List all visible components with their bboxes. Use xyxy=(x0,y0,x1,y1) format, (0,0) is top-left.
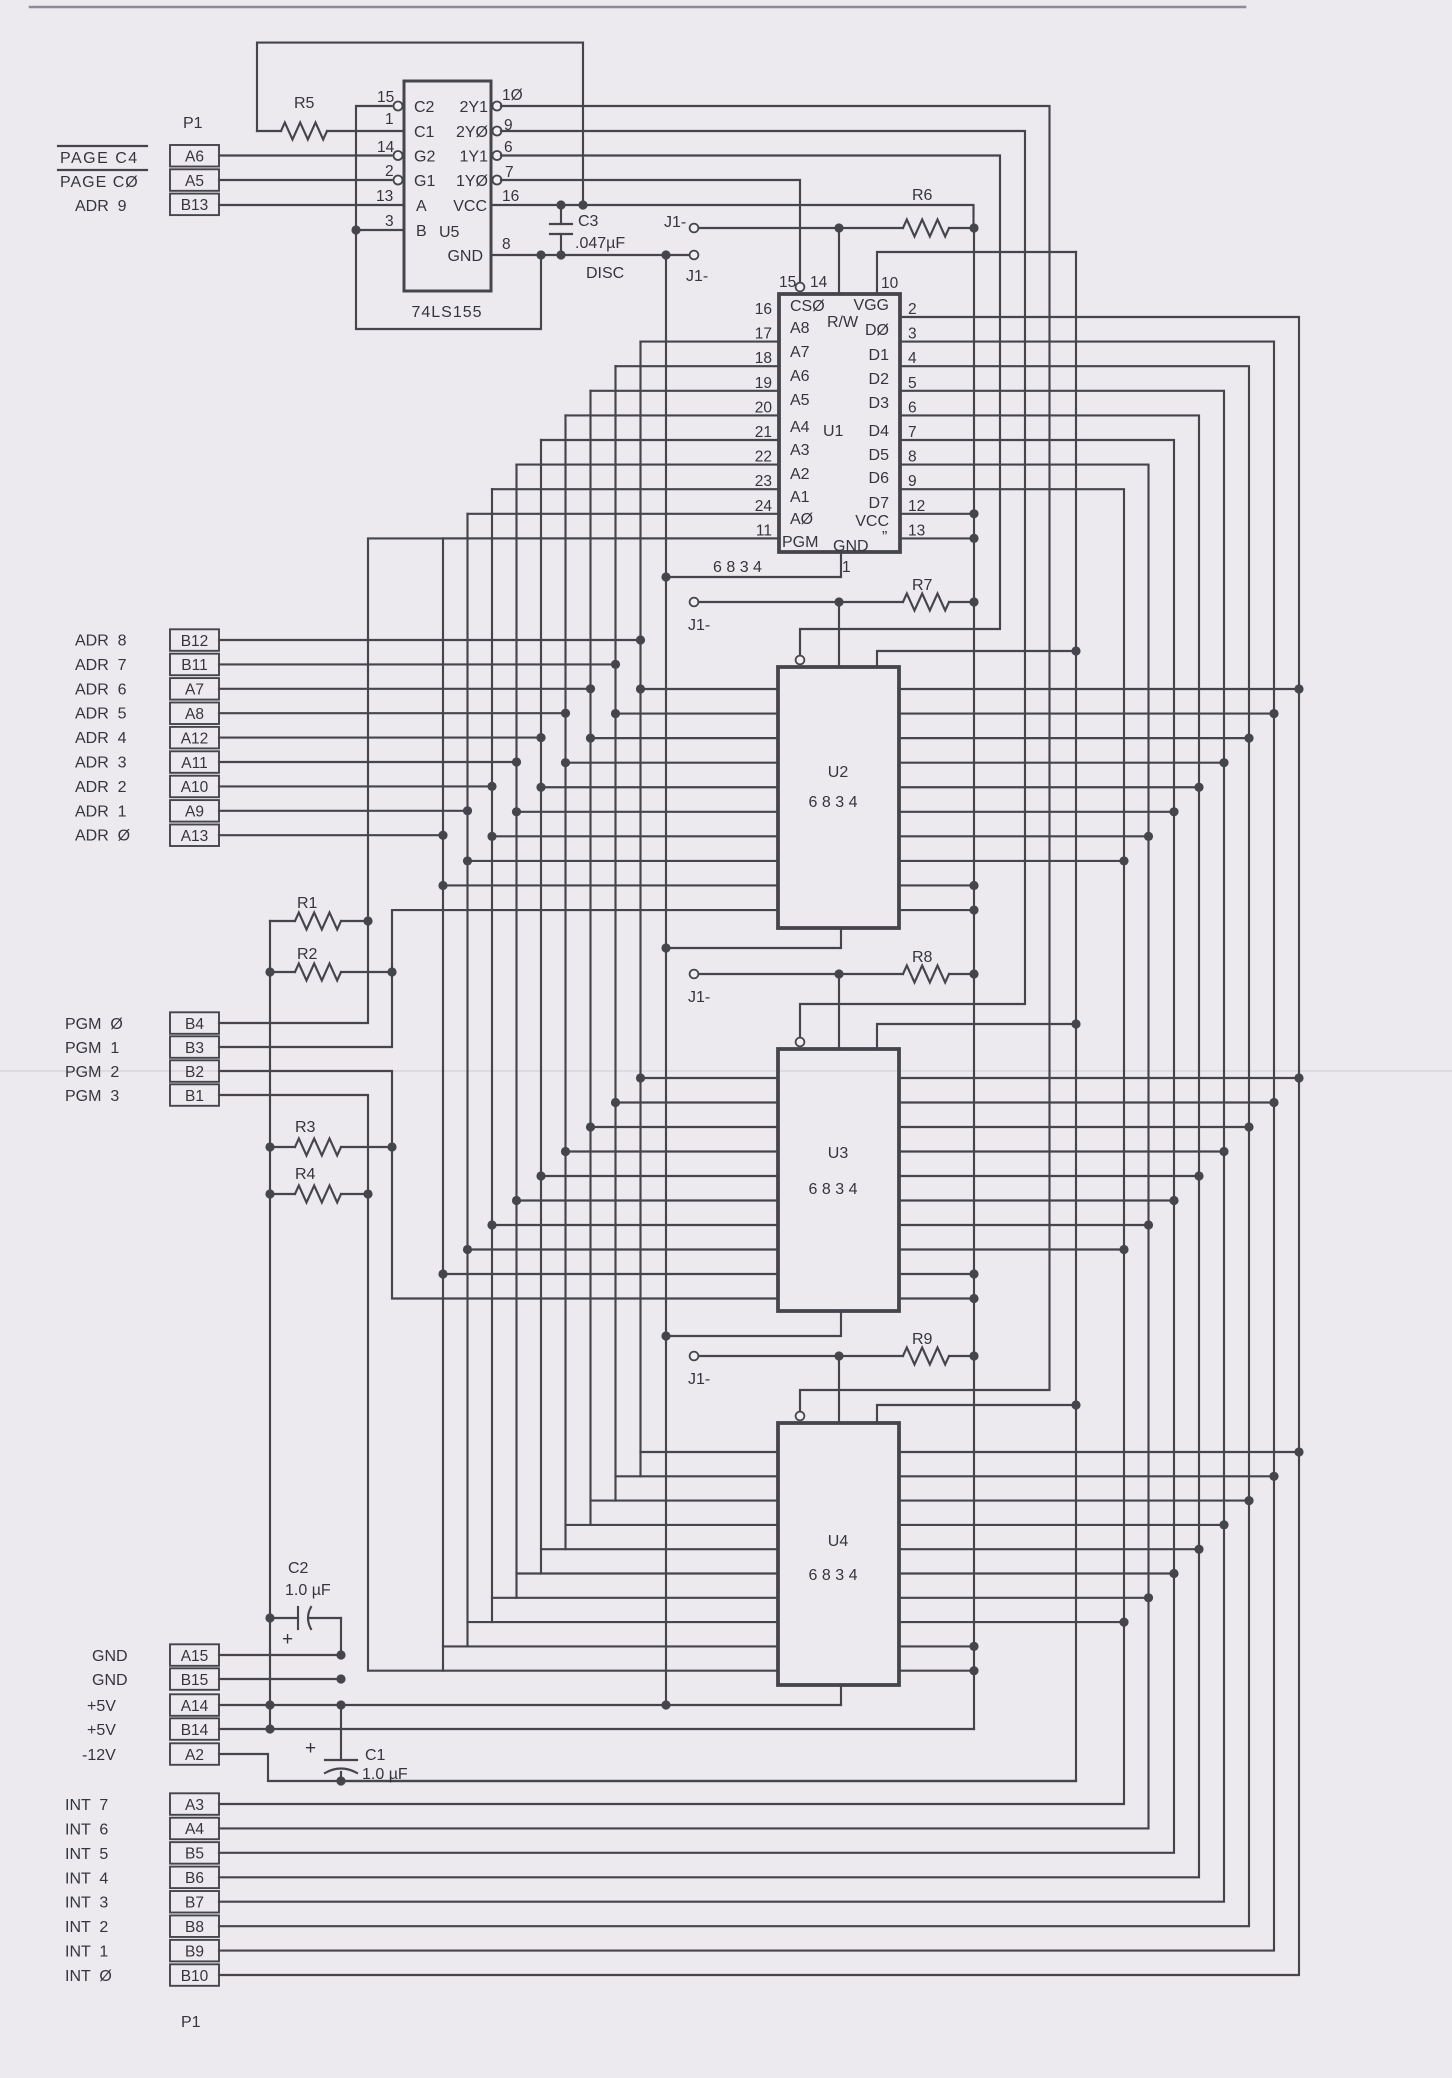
svg-text:14: 14 xyxy=(377,139,395,156)
connector pin B1 xyxy=(170,1084,219,1106)
svg-text:”: ” xyxy=(882,529,887,546)
resistor R8 with J1- terminal xyxy=(688,949,974,1006)
resistor R2 xyxy=(270,946,392,981)
U1 left pin numbers xyxy=(755,301,773,539)
junction U3 data 4 xyxy=(1194,1171,1203,1180)
wire U3 data row 4 xyxy=(899,1175,1199,1177)
bus vertical A3 xyxy=(515,465,517,1598)
junction R/W bus tap xyxy=(1071,1400,1080,1409)
svg-text:P1: P1 xyxy=(181,2014,201,2031)
svg-text:ADR 4: ADR 4 xyxy=(75,730,127,747)
wire U2 A5 xyxy=(566,762,779,764)
wire U3 data row 5 xyxy=(899,1199,1174,1201)
wire U5 VCC to +5 rail xyxy=(491,205,974,228)
capacitor C2 1.0uF xyxy=(270,1560,341,1655)
connector pin A14 xyxy=(170,1694,219,1716)
junction R7/+5 rail xyxy=(969,597,978,606)
svg-text:A2: A2 xyxy=(185,1747,204,1764)
svg-text:B6: B6 xyxy=(185,1870,204,1887)
svg-text:DØ: DØ xyxy=(865,322,889,339)
svg-text:6 8 3 4: 6 8 3 4 xyxy=(809,1181,858,1198)
wire ADR 7 to address bus xyxy=(219,663,616,665)
junction U3 data 3 xyxy=(1219,1147,1228,1156)
junction C3 top xyxy=(556,200,565,209)
wire U4 data row 1 xyxy=(899,1475,1274,1477)
net INT labels xyxy=(65,1797,112,1985)
svg-text:B4: B4 xyxy=(185,1016,204,1033)
wire A5 to U5 G1 xyxy=(219,179,392,181)
svg-text:ADR 8: ADR 8 xyxy=(75,633,127,650)
connector pin A5 xyxy=(170,169,219,191)
wire A6 to U5 G2 xyxy=(219,154,392,156)
wire U1 A8 xyxy=(641,341,780,343)
junction A14/C1 vertical xyxy=(336,1700,345,1709)
junction R9/U4 VGG xyxy=(834,1351,843,1360)
svg-text:1: 1 xyxy=(842,559,851,576)
junction U3 A4 xyxy=(536,1171,545,1180)
U1 right pin numbers xyxy=(908,301,925,539)
svg-text:D4: D4 xyxy=(869,423,890,440)
junction U3 VCC xyxy=(969,1269,978,1278)
wire U2 data row 2 xyxy=(899,737,1249,739)
net 2Y1 chip select U4 xyxy=(501,106,1050,1412)
data bus vertical D6 xyxy=(219,465,1149,1829)
svg-text:R9: R9 xyxy=(912,1331,933,1348)
wire U2 A1 xyxy=(468,860,779,862)
svg-text:INT 1: INT 1 xyxy=(65,1944,108,1961)
wire U3 data row 1 xyxy=(899,1101,1274,1103)
svg-text:ADR 3: ADR 3 xyxy=(75,755,127,772)
svg-text:2: 2 xyxy=(385,163,394,180)
junction U4 data 6 xyxy=(1144,1593,1153,1602)
junction U4 data 5 xyxy=(1169,1569,1178,1578)
svg-text:13: 13 xyxy=(376,188,393,205)
svg-text:.047µF: .047µF xyxy=(575,235,625,252)
bus vertical A8 xyxy=(639,342,641,1477)
wire ADR 2 to address bus xyxy=(219,785,492,787)
connector pin B7 xyxy=(170,1891,219,1913)
resistor R3 xyxy=(270,1119,392,1156)
svg-text:5: 5 xyxy=(908,375,917,392)
wire U2 data row 3 xyxy=(899,762,1224,764)
junction U2 A3 xyxy=(512,807,521,816)
U4 R/W pin wire xyxy=(877,1405,1076,1423)
wire U3 A7 xyxy=(616,1101,779,1103)
svg-text:INT Ø: INT Ø xyxy=(65,1968,112,1985)
net PGM labels xyxy=(65,1016,123,1105)
svg-text:B8: B8 xyxy=(185,1919,204,1936)
svg-text:A11: A11 xyxy=(181,755,207,772)
svg-text:6: 6 xyxy=(908,399,917,416)
svg-text:6 8 3 4: 6 8 3 4 xyxy=(809,794,858,811)
junction R3/rail xyxy=(265,1142,274,1151)
connector pin A9 xyxy=(170,800,219,822)
svg-text:R8: R8 xyxy=(912,949,933,966)
junction R8/U3 VGG xyxy=(834,969,843,978)
wire U3 A2 xyxy=(492,1224,778,1226)
junction pin1/DISC vertical xyxy=(661,1331,670,1340)
svg-text:B9: B9 xyxy=(185,1943,204,1960)
wire U4 A7 xyxy=(616,1475,779,1477)
svg-text:G2: G2 xyxy=(414,149,435,166)
junction ground loop / GND row xyxy=(536,250,545,259)
junction ADR 7 tap xyxy=(611,660,620,669)
wire U4 A1 xyxy=(468,1621,779,1623)
svg-text:B15: B15 xyxy=(181,1672,209,1689)
junction U3 A8 xyxy=(636,1073,645,1082)
svg-text:G1: G1 xyxy=(414,173,435,190)
junction ADR 4 tap xyxy=(536,733,545,742)
wire U1 A5 xyxy=(566,414,780,416)
connector pin A7 xyxy=(170,678,219,700)
wire B13 to U5 A xyxy=(219,204,404,206)
scan seam artifact xyxy=(0,1070,1452,1072)
svg-text:18: 18 xyxy=(755,350,772,367)
junction U3 data 6 xyxy=(1144,1220,1153,1229)
junction U3 pin13 xyxy=(969,1294,978,1303)
junction B strap xyxy=(351,225,360,234)
wire U5 C2/B strap to ground loop xyxy=(356,106,541,329)
svg-text:R4: R4 xyxy=(295,1166,316,1183)
svg-text:B3: B3 xyxy=(185,1040,204,1057)
svg-text:B10: B10 xyxy=(181,1968,209,1985)
svg-text:3: 3 xyxy=(385,213,394,230)
junction U3 data 1 xyxy=(1269,1098,1278,1107)
wire U3 A8 xyxy=(641,1077,779,1079)
junction U2 A1 xyxy=(463,856,472,865)
svg-text:+5V: +5V xyxy=(87,1722,116,1739)
junction U2 VCC xyxy=(969,881,978,890)
junction R7/U2 VGG xyxy=(834,597,843,606)
data bus vertical D7 xyxy=(219,489,1124,1804)
svg-text:D3: D3 xyxy=(869,395,890,412)
junction B14/rail xyxy=(265,1724,274,1733)
svg-text:+: + xyxy=(305,1738,316,1759)
U1 CS bubble xyxy=(796,283,805,292)
svg-text:12: 12 xyxy=(908,498,925,515)
wire U2 A7 xyxy=(616,712,779,714)
U3 VGG top pin wire xyxy=(838,974,840,1049)
wire U4 A3 xyxy=(517,1572,779,1574)
net 1Y0 chip select U1 xyxy=(501,180,800,283)
svg-text:8: 8 xyxy=(502,236,511,253)
connector pin A2 xyxy=(170,1743,219,1765)
svg-text:A1: A1 xyxy=(790,489,810,506)
svg-text:U4: U4 xyxy=(828,1533,849,1550)
junction U3 A7 xyxy=(611,1098,620,1107)
power labels GND GND +5V +5V -12V xyxy=(82,1648,128,1764)
wire U1 A6 xyxy=(591,390,780,392)
wire U4 data row 2 xyxy=(899,1500,1249,1502)
svg-text:A9: A9 xyxy=(185,804,204,821)
U2 VGG top pin wire xyxy=(838,602,840,667)
U3 R/W pin wire xyxy=(877,1024,1076,1049)
junction U2 A7 xyxy=(611,709,620,718)
svg-text:VCC: VCC xyxy=(855,513,889,530)
svg-text:PGM 3: PGM 3 xyxy=(65,1088,119,1105)
junction R6/+5 rail xyxy=(969,223,978,232)
svg-text:J1-: J1- xyxy=(688,1371,710,1388)
junction U2 A8 xyxy=(636,684,645,693)
U3 CS bubble xyxy=(796,1038,805,1047)
wire U1 A0 xyxy=(443,537,779,539)
connector pin B12 xyxy=(170,629,219,651)
svg-text:74LS155: 74LS155 xyxy=(411,304,482,321)
junction U4 data 0 xyxy=(1294,1447,1303,1456)
U1 R/W pin wire xyxy=(877,252,1076,294)
junction U3 data 7 xyxy=(1119,1245,1128,1254)
svg-text:13: 13 xyxy=(908,522,925,539)
junction U3 A2 xyxy=(487,1220,496,1229)
U2 R/W pin wire xyxy=(877,651,1076,667)
junction U2 data 3 xyxy=(1219,758,1228,767)
data bus vertical D0 xyxy=(219,317,1299,1975)
svg-text:C1: C1 xyxy=(414,124,435,141)
svg-text:8: 8 xyxy=(908,449,917,466)
svg-text:1Ø: 1Ø xyxy=(502,87,523,104)
junction ADR 0 tap xyxy=(438,831,447,840)
bus vertical A0 xyxy=(442,538,444,1670)
wire U2 A4 xyxy=(541,786,778,788)
resistor R1 xyxy=(270,895,368,930)
wire U2 data row 4 xyxy=(899,786,1199,788)
junction U4 data 4 xyxy=(1194,1545,1203,1554)
junction U3 data 0 xyxy=(1294,1073,1303,1082)
svg-text:C3: C3 xyxy=(578,213,599,230)
U4 CS bubble xyxy=(796,1412,805,1421)
connector pin A6 xyxy=(170,145,219,167)
svg-text:6: 6 xyxy=(504,139,513,156)
connector pin A3 xyxy=(170,1793,219,1815)
junction A14/DISC vertical xyxy=(661,1700,670,1709)
wire U2 A2 xyxy=(492,835,778,837)
svg-text:B13: B13 xyxy=(181,197,209,214)
junction U2 A5 xyxy=(561,758,570,767)
svg-text:R/W: R/W xyxy=(827,314,859,331)
junction U3 A0 xyxy=(438,1269,447,1278)
svg-text:15: 15 xyxy=(377,89,394,106)
svg-text:B5: B5 xyxy=(185,1846,204,1863)
resistor R4 xyxy=(270,1166,368,1203)
connector pin A15 xyxy=(170,1644,219,1666)
wire U4 A4 xyxy=(541,1548,778,1550)
svg-text:INT 5: INT 5 xyxy=(65,1846,108,1863)
wire A14 +5V to U4 pin1 xyxy=(219,1704,841,1706)
wire -12V row continues xyxy=(341,1780,1076,1782)
connector pin B6 xyxy=(170,1867,219,1889)
svg-text:R2: R2 xyxy=(297,946,318,963)
junction ADR 2 tap xyxy=(487,782,496,791)
svg-text:U2: U2 xyxy=(828,764,849,781)
junction U2 A6 xyxy=(586,734,595,743)
svg-text:ADR 2: ADR 2 xyxy=(75,779,127,796)
svg-text:D5: D5 xyxy=(869,447,890,464)
U5 pin bubbles C2 G2 G1 xyxy=(394,102,403,111)
connector pin A13 xyxy=(170,825,219,847)
connector pin A10 xyxy=(170,776,219,798)
svg-text:4: 4 xyxy=(908,350,917,367)
svg-text:6 8 3 4: 6 8 3 4 xyxy=(713,559,762,576)
connector pin B13 xyxy=(170,194,219,216)
bus vertical A5 xyxy=(564,415,566,1549)
junction U3 A6 xyxy=(586,1122,595,1131)
svg-text:PAGE C4: PAGE C4 xyxy=(60,150,139,167)
U4 pin 1 ground wire xyxy=(840,1685,842,1705)
svg-text:2: 2 xyxy=(908,301,917,318)
svg-text:A4: A4 xyxy=(185,1821,204,1838)
junction R1/PGM0 xyxy=(363,916,372,925)
junction A15/C2 vertical xyxy=(336,1650,345,1659)
bus vertical A1 xyxy=(466,514,468,1647)
net PGM3: B1 to U4 PGM xyxy=(219,1095,778,1671)
svg-text:R5: R5 xyxy=(294,95,315,112)
bus vertical DISC ground xyxy=(665,255,667,1705)
svg-text:R7: R7 xyxy=(912,577,933,594)
junction pin1/DISC vertical xyxy=(661,572,670,581)
svg-text:23: 23 xyxy=(755,473,772,490)
connector pin B5 xyxy=(170,1842,219,1864)
junction R3/PGM2 xyxy=(387,1142,396,1151)
svg-text:J1-: J1- xyxy=(688,617,710,634)
connector pin A4 xyxy=(170,1818,219,1840)
svg-text:U3: U3 xyxy=(828,1145,849,1162)
junction U2 A4 xyxy=(536,783,545,792)
svg-text:17: 17 xyxy=(755,326,772,343)
net 1Y1 chip select U2 xyxy=(501,156,1000,656)
svg-text:D1: D1 xyxy=(869,347,890,364)
wire ADR 4 to address bus xyxy=(219,737,541,739)
wire U4 data row 3 xyxy=(899,1524,1224,1526)
svg-text:GND: GND xyxy=(447,248,483,265)
svg-text:B14: B14 xyxy=(181,1722,209,1739)
svg-text:GND: GND xyxy=(92,1672,128,1689)
svg-text:7: 7 xyxy=(505,164,514,181)
junction U3 data 2 xyxy=(1244,1122,1253,1131)
wire U4 A0 xyxy=(443,1645,778,1647)
wire U3 A6 xyxy=(591,1126,779,1128)
svg-text:1.0 µF: 1.0 µF xyxy=(362,1766,408,1783)
junction U4 data 2 xyxy=(1244,1496,1253,1505)
junction U2 pin13 xyxy=(969,905,978,914)
connector pin B14 xyxy=(170,1718,219,1740)
data bus vertical D5 xyxy=(219,440,1174,1853)
svg-text:R6: R6 xyxy=(912,187,933,204)
wire U3 A5 xyxy=(566,1150,779,1152)
wire U2 A0 xyxy=(443,884,778,886)
svg-text:PGM 1: PGM 1 xyxy=(65,1040,119,1057)
scan page top edge xyxy=(30,6,1245,9)
wire U2 data row 1 xyxy=(899,712,1274,714)
svg-text:B: B xyxy=(416,223,427,240)
svg-text:VCC: VCC xyxy=(453,198,487,215)
svg-text:1Y1: 1Y1 xyxy=(460,149,489,166)
junction U2 data 2 xyxy=(1244,734,1253,743)
wire U1 A1 xyxy=(468,513,780,515)
svg-text:C2: C2 xyxy=(288,1560,309,1577)
wire U3 data row 7 xyxy=(899,1248,1124,1250)
wire U4 data row 6 xyxy=(899,1597,1149,1599)
wire U2 A8 xyxy=(641,688,779,690)
wire U3 data row 2 xyxy=(899,1126,1249,1128)
svg-text:A10: A10 xyxy=(181,779,209,796)
+5 rail vertical xyxy=(973,228,975,1729)
junction R2/rail xyxy=(265,967,274,976)
svg-text:B1: B1 xyxy=(185,1088,204,1105)
svg-text:C1: C1 xyxy=(365,1747,386,1764)
wire U3 data row 6 xyxy=(899,1224,1149,1226)
data bus vertical D3 xyxy=(219,391,1224,1902)
svg-text:INT 4: INT 4 xyxy=(65,1870,108,1887)
svg-text:6 8 3 4: 6 8 3 4 xyxy=(809,1567,858,1584)
wire U4 A8 xyxy=(641,1451,779,1453)
junction ADR 6 tap xyxy=(586,684,595,693)
svg-text:7: 7 xyxy=(908,424,917,441)
wire ADR 0 to address bus xyxy=(219,834,443,836)
connector pin B4 xyxy=(170,1012,219,1034)
svg-text:A6: A6 xyxy=(185,149,204,166)
junction U1 VCC xyxy=(969,509,978,518)
svg-text:16: 16 xyxy=(502,188,519,205)
svg-text:A7: A7 xyxy=(790,344,810,361)
wire B15 GND xyxy=(219,1678,341,1680)
svg-text:A13: A13 xyxy=(181,828,209,845)
svg-text:INT 3: INT 3 xyxy=(65,1895,108,1912)
wire U3 VCC to +5 rail xyxy=(899,1273,974,1275)
wire A15 GND xyxy=(219,1654,341,1656)
svg-text:C2: C2 xyxy=(414,99,435,116)
svg-text:PAGE CØ: PAGE CØ xyxy=(60,174,139,191)
junction DISC vertical top xyxy=(661,250,670,259)
wire ADR 8 to address bus xyxy=(219,639,641,641)
wire R5 feedback loop to VCC xyxy=(257,43,583,205)
svg-text:D2: D2 xyxy=(869,371,890,388)
junction U3 A3 xyxy=(512,1196,521,1205)
svg-text:A8: A8 xyxy=(790,320,810,337)
U2 CS bubble xyxy=(796,656,805,665)
svg-text:2YØ: 2YØ xyxy=(456,124,488,141)
svg-text:DISC: DISC xyxy=(586,265,624,282)
connector pin A8 xyxy=(170,703,219,725)
junction R/W bus tap xyxy=(1071,646,1080,655)
svg-text:1.0 µF: 1.0 µF xyxy=(285,1582,331,1599)
U1 right pin names xyxy=(853,297,889,530)
wire U3 GND pin 13 to +5 rail xyxy=(899,1297,974,1299)
junction R8/+5 rail xyxy=(969,969,978,978)
resistor R9 with J1- terminal xyxy=(688,1331,974,1388)
capacitor C3 .047uF xyxy=(550,205,625,255)
wire ADR 3 to address bus xyxy=(219,761,517,763)
junction B15/C2 vertical xyxy=(336,1674,345,1683)
svg-text:16: 16 xyxy=(755,301,772,318)
junction ADR 5 tap xyxy=(561,709,570,718)
net PGM0: B4 to U1 PGM xyxy=(219,538,779,1023)
junction U2 data 0 xyxy=(1294,684,1303,693)
svg-text:J1-: J1- xyxy=(664,214,686,231)
wire U2 A3 xyxy=(517,811,779,813)
svg-text:+5V: +5V xyxy=(87,1698,116,1715)
wire U1 A3 xyxy=(517,464,780,466)
junction U3 A5 xyxy=(561,1147,570,1156)
connector pin B9 xyxy=(170,1940,219,1962)
svg-text:GND: GND xyxy=(833,538,869,555)
connector pin B2 xyxy=(170,1060,219,1082)
svg-text:P1: P1 xyxy=(183,115,203,132)
IC U2 6834 body xyxy=(778,667,899,928)
wire U3 data row 3 xyxy=(899,1150,1224,1152)
U5 output bubbles 2Y1 2Y0 1Y1 1Y0 xyxy=(493,102,502,111)
net 2Y0 chip select U3 xyxy=(501,131,1025,1038)
svg-text:PGM Ø: PGM Ø xyxy=(65,1016,123,1033)
